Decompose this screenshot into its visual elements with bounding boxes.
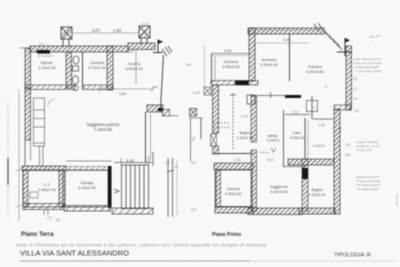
right outer strip double verticals: [167, 158, 177, 217]
kitchen counter line: [135, 50, 137, 84]
dim line mid top: [253, 42, 309, 44]
dark bar on that wall: [302, 168, 308, 179]
svg-text:Camera: Camera: [226, 187, 240, 191]
camera2 room left wall: [211, 54, 213, 84]
thin wall right of bagno: [82, 52, 84, 90]
top-right corner hatch strokes: [162, 46, 172, 56]
far right note block B: [356, 140, 380, 152]
right edge faint tick: [396, 194, 398, 206]
svg-text:4.10x3.30: 4.10x3.30: [78, 185, 96, 190]
svg-text:2.10x3.30: 2.10x3.30: [38, 65, 56, 70]
wall camera/cucina: [107, 46, 113, 90]
camera4 room: [216, 170, 252, 207]
hatched wall above camera4: [214, 163, 253, 170]
step in right wall: [334, 105, 351, 110]
svg-text:1.10: 1.10: [234, 158, 241, 162]
landing lines: [285, 114, 310, 116]
level flag symbol left plan: [153, 40, 163, 53]
stairs dim ticks: [121, 156, 149, 165]
svg-text:4.10: 4.10: [267, 158, 274, 162]
svg-text:2.20x3.20: 2.20x3.20: [309, 193, 326, 197]
closet dashed vertical: [230, 93, 255, 150]
thin wall right of cam room: [304, 118, 306, 159]
dim line left of camera2: [204, 45, 206, 87]
bagno2 label: [237, 131, 254, 140]
svg-text:3.00x3.30: 3.00x3.30: [225, 192, 242, 196]
bagno fixtures top: [73, 56, 80, 91]
porch outer vertical: [200, 118, 202, 139]
svg-text:. . . .: . . . .: [261, 104, 267, 108]
vertical wall right of soggiorno2: [302, 159, 308, 211]
svg-text:3.90: 3.90: [119, 92, 126, 96]
left vertical wall of top block: [249, 28, 255, 81]
window box on left wall: [211, 134, 217, 146]
camera1 label: [88, 60, 106, 70]
top wall left segment: [30, 46, 128, 52]
svg-text:3.05: 3.05: [126, 158, 135, 163]
right wall side numbers: [353, 77, 358, 101]
svg-text:1.2: 1.2: [165, 161, 170, 165]
svg-text:1.90: 1.90: [113, 28, 122, 33]
svg-text:TIPOLOGIA 'A': TIPOLOGIA 'A': [334, 252, 372, 258]
top right corner hatch strokes: [314, 23, 342, 50]
svg-text:2.0: 2.0: [191, 208, 196, 212]
right outer wall upper: [346, 46, 352, 110]
camera3 label: [306, 64, 324, 74]
camera2 bottom wall: [211, 81, 258, 86]
window X left of camera2: [204, 87, 211, 95]
corridor/soggiorno boundary line: [284, 166, 307, 168]
corridor marks: [260, 148, 276, 153]
soggiorno right wall double line: [145, 112, 147, 163]
top wall right segment: [128, 43, 155, 50]
interior step marks CT room: [30, 192, 38, 198]
svg-text:47: 47: [338, 127, 342, 131]
svg-text:Bagno: Bagno: [312, 188, 323, 192]
svg-text:1.6: 1.6: [354, 109, 359, 113]
svg-text:2.40x2.10: 2.40x2.10: [38, 187, 56, 192]
svg-text:3.98x3.50: 3.98x3.50: [222, 64, 240, 69]
wall between ripost and bagno: [66, 52, 72, 88]
dark bar left of window: [158, 108, 164, 111]
svg-text:2.10: 2.10: [241, 115, 248, 119]
svg-text:3.10: 3.10: [193, 91, 200, 95]
svg-text:2.0: 2.0: [128, 50, 133, 54]
svg-text:2: 2: [314, 106, 316, 110]
porch post box right: [190, 109, 197, 117]
svg-text:3.95x2.0: 3.95x2.0: [290, 136, 305, 140]
terrazzo label: [260, 57, 278, 67]
left outer wall upper: [25, 48, 31, 88]
svg-text:2.1: 2.1: [191, 161, 196, 165]
chimney box B top: [139, 26, 150, 44]
svg-text:1.10: 1.10: [318, 123, 325, 127]
svg-text:25: 25: [56, 218, 60, 222]
svg-text:Cam.: Cam.: [292, 131, 301, 135]
short vertical above stair right edge: [152, 152, 154, 166]
svg-text:in pvc colore chiaro: in pvc colore chiaro: [356, 69, 382, 73]
svg-text:.4: .4: [174, 165, 177, 169]
svg-text:6.01: 6.01: [142, 22, 149, 26]
svg-text:disimp.: disimp.: [268, 134, 279, 138]
dark bar on camera2 bottom wall: [235, 81, 249, 86]
hatched wall mid right rooms: [288, 159, 334, 165]
thin wall under bagno2: [214, 153, 253, 155]
top wall: [248, 28, 324, 34]
top dim line: [251, 29, 322, 31]
outside right margin dim texts: [186, 63, 200, 212]
door swing mark near shelf: [48, 99, 55, 106]
svg-text:1.0: 1.0: [345, 143, 350, 147]
svg-text:7.10x4.60: 7.10x4.60: [94, 127, 113, 132]
dark bar camera3 bottom: [285, 95, 301, 98]
bottom wall center right plan: [248, 208, 302, 215]
horizontal thin line bottom of soggiorno: [66, 160, 112, 162]
svg-text:VILLA VIA SANT ALESSANDRO: VILLA VIA SANT ALESSANDRO: [20, 249, 129, 258]
room top-right lower section label: [290, 131, 305, 140]
svg-text:2.5: 2.5: [47, 216, 52, 220]
dim tick top-left: [20, 47, 30, 49]
staircase: [122, 165, 149, 209]
bottom wall lower-right: [299, 208, 335, 214]
title underline: [20, 260, 250, 262]
svg-text:2.20: 2.20: [344, 103, 351, 107]
top wall dark door bar: [37, 50, 50, 54]
camera4 label: [225, 187, 242, 196]
tick below bottom wall: [44, 210, 48, 215]
svg-text:3.30x4.20: 3.30x4.20: [260, 62, 278, 67]
bagno3 label: [309, 188, 326, 197]
room C.T. label: [38, 182, 56, 192]
svg-text:1.20x4.6: 1.20x4.6: [266, 139, 279, 143]
top dimension line: [72, 32, 139, 34]
garage top wall light: [66, 167, 108, 171]
corridor right line: [283, 110, 285, 167]
kitchen right wall thin: [161, 55, 164, 109]
svg-text:2.8: 2.8: [345, 153, 350, 157]
room Ripost label: [38, 60, 56, 70]
left outer wall lower gap lines: [24, 140, 26, 166]
far left scan artifact line: [7, 100, 9, 220]
svg-text:3.90x4.10: 3.90x4.10: [125, 66, 143, 71]
svg-text:3: 3: [193, 136, 195, 140]
svg-text:3.98: 3.98: [224, 49, 231, 53]
small texts right strip: [165, 161, 177, 169]
far right note block C: [356, 175, 381, 191]
dim line above camera2: [211, 53, 251, 55]
svg-text:Bagno: Bagno: [240, 131, 251, 135]
room C.T. left wall hatch: [23, 170, 28, 207]
cucina label: [125, 61, 143, 71]
svg-text:Nota: il riferimento per la de: Nota: il riferimento per la descrizione …: [16, 242, 267, 247]
porch right edge line: [189, 117, 203, 119]
svg-text:3.70x4.10: 3.70x4.10: [88, 65, 106, 70]
left outer dim line: [16, 90, 22, 221]
tick left of kitchen wall: [152, 86, 158, 88]
left outer wall below window: [213, 146, 219, 154]
svg-text:3.0: 3.0: [353, 77, 358, 81]
porch edge line: [170, 115, 179, 117]
bottom wall band under stairs: [112, 208, 153, 214]
right outside dim texts: [338, 103, 351, 157]
soggiorno2 label: [270, 184, 288, 194]
level flag right plan: [337, 39, 352, 57]
far left scan artifact dark segment: [7, 158, 9, 185]
svg-text:1.2: 1.2: [353, 87, 358, 91]
svg-text:2.1: 2.1: [39, 43, 44, 47]
stair arrow mark: [114, 189, 119, 193]
svg-text:4.07: 4.07: [92, 28, 101, 33]
room C.T. outline: [23, 170, 63, 207]
svg-text:4.20x4.60: 4.20x4.60: [306, 69, 324, 74]
bottom wall band mid: [64, 206, 110, 212]
garage room outline: [65, 170, 108, 207]
kitchen bottom dim line: [99, 87, 155, 92]
left outer wall middle: [25, 88, 31, 140]
wall between CT and garage: [59, 170, 65, 207]
svg-text:2: 2: [325, 85, 327, 89]
svg-text:h utile 2.70: h utile 2.70: [357, 148, 372, 152]
camera4 left wall hatch: [215, 170, 221, 207]
camera2 label: [222, 59, 240, 69]
corridor label: [266, 134, 279, 143]
bottom wall band left: [23, 204, 64, 210]
dark wall bar between garage and stairs: [108, 166, 112, 208]
soggiorno label: [87, 122, 120, 132]
top wall of bottom-left rooms: [22, 166, 66, 171]
svg-text:~~~: ~~~: [370, 39, 376, 44]
left outer wall lower right plan: [213, 85, 219, 133]
svg-text:1.10x2.0: 1.10x2.0: [312, 144, 325, 148]
dashed threshold under top wall: [38, 55, 53, 57]
terrazzo bottom line: [250, 92, 285, 98]
porch right vertical: [190, 118, 192, 161]
landing vertical line: [311, 96, 313, 119]
horizontal wall under top rooms: [25, 85, 113, 90]
garage label: [78, 180, 96, 190]
svg-text:Piano Terra: Piano Terra: [21, 232, 54, 238]
short verticals below shelf column: [40, 146, 44, 166]
right outer wall lower: [334, 109, 340, 214]
wall terrazzo/camera3: [289, 34, 291, 81]
svg-text:verniciato opaco: verniciato opaco: [357, 187, 379, 191]
svg-text:1.K: 1.K: [186, 63, 192, 67]
svg-text:2.4: 2.4: [353, 97, 358, 101]
porch window box with diagonal: [163, 110, 170, 117]
svg-text:2.07: 2.07: [292, 111, 299, 115]
closet dashed shelves: [213, 123, 231, 128]
svg-text:4.10x4.60: 4.10x4.60: [270, 189, 288, 194]
chimney box A top: [61, 27, 72, 47]
vertical wall center right plan: [251, 96, 257, 142]
wall stub mid right: [147, 105, 163, 112]
shelf column left: [34, 98, 45, 146]
landing shaft box: [307, 101, 318, 112]
far right note block A: [354, 57, 382, 73]
svg-text:Piano Primo: Piano Primo: [212, 232, 241, 238]
bottom wall lower-left right plan: [215, 207, 253, 214]
